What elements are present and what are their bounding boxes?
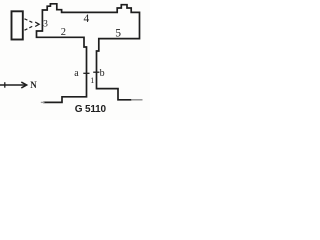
north arrow shaft [0, 84, 26, 86]
svg-text:5: 5 [115, 27, 121, 39]
svg-text:3: 3 [43, 20, 48, 30]
svg-text:1: 1 [90, 76, 94, 85]
shaft tick a [83, 72, 89, 74]
svg-text:N: N [30, 80, 37, 90]
north arrowhead [21, 82, 26, 88]
svg-text:b: b [100, 68, 105, 79]
svg-text:a: a [74, 68, 79, 79]
dashed sight line lower [25, 26, 34, 31]
shaft tick b [93, 71, 99, 73]
dashed sight line upper [25, 19, 34, 23]
plan outline of mastaba G 5110 [37, 4, 140, 103]
faded right end of bottom step wall [131, 99, 143, 101]
north arrow cross tick [4, 82, 6, 88]
outbuilding rectangle [12, 11, 23, 39]
faded left end of bottom step wall [41, 101, 45, 103]
svg-text:4: 4 [84, 13, 90, 25]
svg-text:G 5110: G 5110 [75, 104, 107, 115]
svg-text:2: 2 [61, 27, 66, 38]
sight arrowhead [35, 22, 39, 26]
